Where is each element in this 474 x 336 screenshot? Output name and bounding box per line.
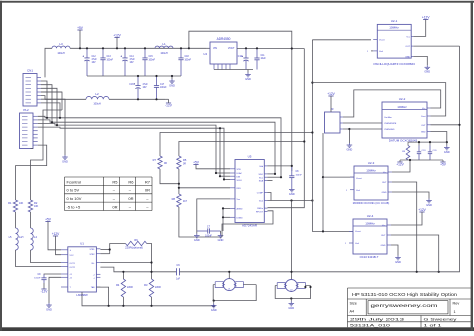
svg-text:ADR4550: ADR4550	[217, 37, 231, 41]
connector CN1	[23, 74, 37, 107]
svg-text:OUT: OUT	[382, 182, 387, 184]
svg-text:16V: 16V	[130, 62, 135, 64]
svg-text:+12V: +12V	[396, 162, 404, 166]
svg-text:10MHz: 10MHz	[389, 26, 399, 30]
capacitor C11	[256, 48, 258, 58]
svg-text:OUT: OUT	[381, 235, 386, 237]
svg-text:53131A_010: 53131A_010	[350, 324, 390, 328]
svg-text:47uF: 47uF	[130, 59, 136, 61]
wire vcont vertical	[312, 40, 353, 232]
svg-text:MORION OCXO91 (CC CO-08): MORION OCXO91 (CC CO-08)	[353, 201, 390, 205]
wire	[213, 284, 215, 286]
border frame	[0, 1, 474, 3]
ground	[348, 143, 350, 145]
svg-text:GND: GND	[245, 77, 251, 81]
svg-text:LDAC: LDAC	[237, 172, 243, 175]
svg-text:GND: GND	[395, 260, 401, 264]
wire	[15, 212, 17, 228]
svg-text:GND: GND	[218, 238, 224, 242]
svg-text:+12V: +12V	[52, 232, 60, 236]
svg-text:100nF: 100nF	[185, 60, 192, 62]
svg-text:STB1: STB1	[89, 249, 95, 251]
svg-text:HP 53131-010 OCXO High Stabili: HP 53131-010 OCXO High Stability Option	[352, 292, 457, 298]
svg-text:0R: 0R	[164, 163, 167, 165]
resistor R3	[149, 279, 153, 297]
svg-text:GND: GND	[421, 132, 426, 134]
wire	[41, 96, 86, 100]
wire U1 tab	[96, 287, 108, 306]
transistor Q2	[285, 280, 297, 292]
svg-text:Size: Size	[350, 302, 357, 306]
svg-text:4K7: 4K7	[183, 201, 188, 203]
wire aGND dGND	[223, 208, 230, 231]
op-amp U4 ADR4550	[210, 42, 237, 64]
svg-text:Vout: Vout	[259, 200, 264, 203]
svg-text:10MHz: 10MHz	[397, 105, 407, 109]
resistor R8	[177, 194, 181, 207]
svg-text:R5: R5	[183, 158, 187, 162]
resistor R6 optional	[100, 249, 109, 251]
svg-text:Fcontrol: Fcontrol	[67, 179, 82, 184]
wire osc3 vcc	[392, 160, 410, 172]
svg-text:220R: 220R	[155, 286, 161, 289]
power -12V	[43, 283, 45, 289]
svg-text:AGND: AGND	[237, 208, 244, 211]
svg-text:1uF: 1uF	[176, 278, 181, 281]
wire U5 right side Vdd	[268, 165, 292, 167]
inductor L5	[16, 228, 19, 250]
svg-text:GND: GND	[62, 159, 68, 163]
resistor R2	[28, 200, 32, 212]
svg-text:R5: R5	[112, 179, 118, 184]
svg-text:C12: C12	[92, 56, 97, 58]
ground	[391, 245, 398, 256]
svg-text:OUT1: OUT1	[70, 263, 76, 265]
svg-text:GND: GND	[444, 150, 450, 154]
svg-text:OUT2: OUT2	[70, 267, 76, 269]
svg-text:GND: GND	[211, 308, 217, 312]
wire DAC out to buffer	[291, 201, 293, 280]
svg-text:GND: GND	[347, 147, 353, 151]
wire Fcontrol feed A	[160, 133, 312, 157]
svg-text:100uH: 100uH	[93, 102, 101, 105]
svg-text:0R: 0R	[145, 188, 150, 193]
svg-text:+5V: +5V	[440, 162, 447, 166]
ground	[392, 192, 429, 199]
svg-text:U2-1: U2-1	[391, 19, 398, 23]
wire vref stub	[371, 50, 373, 52]
ground	[196, 231, 198, 234]
wire J3 to U2-2 Vcc	[343, 90, 441, 117]
svg-text:+12V: +12V	[418, 208, 426, 212]
svg-text:U1: U1	[80, 242, 84, 246]
svg-text:VIN: VIN	[213, 47, 217, 50]
svg-text:GND: GND	[288, 306, 294, 310]
svg-text:GND: GND	[289, 192, 295, 196]
wire ground rail	[87, 75, 181, 77]
svg-text:1: 1	[454, 310, 456, 314]
svg-text:C18: C18	[185, 56, 190, 58]
svg-text:RFS: RFS	[237, 188, 242, 190]
power -12V	[166, 102, 171, 104]
svg-text:Vref: Vref	[379, 50, 383, 53]
svg-text:100nF: 100nF	[160, 87, 167, 89]
svg-text:16V: 16V	[143, 87, 148, 89]
svg-text:Vcont: Vcont	[379, 39, 385, 42]
svg-text:10uF: 10uF	[261, 58, 267, 60]
inductor L3	[52, 46, 70, 48]
wire	[343, 122, 382, 124]
svg-text:Vref: Vref	[356, 189, 360, 192]
ground	[291, 188, 293, 190]
svg-text:STB: STB	[237, 169, 242, 171]
svg-text:GND: GND	[405, 57, 410, 59]
svg-text:U5: U5	[248, 155, 252, 159]
inductor L2	[86, 96, 109, 99]
capacitor C6	[176, 268, 178, 275]
svg-text:DIN: DIN	[237, 177, 241, 179]
svg-text:1 of 1: 1 of 1	[424, 324, 442, 328]
svg-text:R7: R7	[153, 158, 157, 162]
wire osc3 out	[392, 182, 417, 272]
wire Vdd top feed	[189, 31, 292, 171]
svg-text:100nF: 100nF	[149, 60, 156, 62]
connector J3	[325, 112, 341, 133]
svg-text:10MHz: 10MHz	[366, 169, 376, 173]
svg-text:0 to 5V: 0 to 5V	[67, 188, 80, 193]
svg-text:100uH: 100uH	[57, 52, 65, 55]
wire U1 bottom	[82, 292, 214, 306]
wire	[147, 244, 152, 280]
capacitor C16	[137, 76, 139, 86]
power +12V trio	[397, 161, 402, 163]
svg-text:U2-4: U2-4	[367, 214, 374, 218]
svg-text:L3: L3	[59, 42, 63, 46]
svg-text:OUT: OUT	[421, 125, 426, 127]
ground	[247, 70, 249, 73]
wire Vout	[268, 200, 313, 202]
capacitor C18	[180, 48, 182, 58]
svg-text:GND: GND	[46, 307, 52, 311]
wire	[179, 207, 222, 237]
svg-text:Vcont: Vcont	[356, 177, 362, 180]
svg-text:U2-2: U2-2	[399, 97, 406, 101]
wire RFS	[179, 187, 230, 189]
svg-text:-5 to +5: -5 to +5	[67, 204, 81, 209]
svg-text:100nF: 100nF	[205, 235, 212, 238]
svg-text:OC10 3431B-T: OC10 3431B-T	[360, 255, 379, 259]
svg-text:L2: L2	[95, 92, 99, 96]
op-amp U1 LM358W	[68, 247, 97, 292]
svg-text:PL2: PL2	[23, 108, 29, 112]
wire Fcontrol feed B	[179, 142, 304, 157]
wire CN1 pin wires	[41, 81, 47, 118]
svg-text:OVENGND: OVENGND	[384, 129, 395, 131]
svg-text:GND: GND	[194, 238, 200, 242]
svg-text:Vss: Vss	[237, 199, 240, 201]
ground	[213, 300, 215, 302]
svg-text:C13: C13	[107, 56, 112, 58]
node +5V rail junctions	[79, 47, 81, 49]
svg-text:GND: GND	[426, 203, 432, 207]
svg-text:R4: R4	[116, 283, 120, 287]
svg-text:R7: R7	[145, 179, 151, 184]
svg-text:SDO: SDO	[258, 174, 263, 176]
svg-text:100nF: 100nF	[107, 60, 114, 62]
svg-text:REFin: REFin	[257, 208, 264, 210]
transistor Q1	[223, 279, 235, 291]
svg-text:Vcont: Vcont	[355, 230, 361, 233]
ground	[220, 231, 222, 234]
ground	[413, 56, 427, 65]
svg-text:29th July 2013: 29th July 2013	[350, 318, 404, 322]
resistor R7	[158, 156, 162, 169]
svg-text:OSCILLOQUARTZ OCXO8663: OSCILLOQUARTZ OCXO8663	[373, 62, 415, 66]
svg-text:C16: C16	[129, 84, 134, 86]
svg-text:1uH: 1uH	[19, 236, 24, 239]
svg-text:+12V: +12V	[327, 92, 335, 96]
wire +5V rail	[70, 47, 206, 49]
svg-text:Rev: Rev	[453, 302, 460, 306]
svg-text:C10: C10	[238, 56, 243, 58]
resistor R5	[177, 156, 181, 169]
capacitor C12	[86, 48, 88, 58]
ground	[431, 132, 447, 146]
svg-text:10MHz: 10MHz	[365, 222, 375, 226]
svg-text:GND: GND	[381, 245, 386, 247]
svg-text:TAB: TAB	[91, 286, 95, 289]
svg-text:CN1: CN1	[27, 69, 33, 73]
capacitor C19	[418, 146, 420, 152]
inductor L1	[155, 46, 173, 48]
svg-text:OUT: OUT	[405, 46, 410, 48]
svg-text:Vcc: Vcc	[422, 108, 425, 110]
svg-text:100uH: 100uH	[160, 52, 168, 55]
wire	[408, 159, 430, 161]
svg-text:0R: 0R	[112, 204, 117, 209]
svg-text:+5V: +5V	[193, 160, 200, 164]
svg-text:L1: L1	[162, 42, 166, 46]
wire PL2 lower pins	[16, 145, 47, 200]
wire	[160, 169, 179, 184]
svg-text:100nF: 100nF	[34, 278, 41, 280]
svg-text:-12V: -12V	[165, 103, 173, 107]
resistor R9	[406, 146, 410, 161]
svg-text:+12V: +12V	[422, 15, 430, 19]
svg-text:Fout: Fout	[421, 115, 426, 118]
svg-text:16V: 16V	[92, 62, 97, 64]
svg-text:C15: C15	[149, 56, 154, 58]
wire osc4 out	[391, 235, 439, 272]
capacitor C10	[245, 48, 247, 58]
svg-text:GND: GND	[382, 192, 387, 194]
capacitor C14	[124, 48, 126, 58]
wire REFin	[268, 49, 305, 208]
svg-text:GND: GND	[169, 83, 175, 87]
connector PL2	[20, 113, 34, 149]
svg-text:10K: 10K	[34, 205, 39, 208]
wire U4 ground rail	[214, 69, 253, 71]
wire comp to vout	[268, 193, 272, 201]
svg-text:R1: R1	[8, 201, 12, 205]
svg-text:SCLK: SCLK	[237, 180, 243, 182]
capacitor C7	[197, 230, 208, 232]
svg-text:47uF: 47uF	[92, 59, 98, 61]
svg-text:G Sweeney: G Sweeney	[424, 318, 457, 322]
svg-text:C17: C17	[160, 84, 165, 86]
wire output line	[100, 262, 151, 264]
wire	[219, 128, 221, 176]
svg-text:220R: 220R	[127, 286, 133, 289]
ground	[49, 277, 61, 303]
svg-text:SDA: SDA	[259, 180, 264, 183]
svg-text:0R: 0R	[128, 196, 133, 201]
svg-text:U2-3: U2-3	[368, 161, 375, 165]
wire main analog line	[180, 46, 460, 272]
svg-text:COMP: COMP	[257, 193, 264, 195]
svg-text:C14: C14	[130, 56, 135, 58]
resistor R4	[122, 272, 124, 279]
svg-text:10K: 10K	[19, 202, 24, 205]
capacitor C8	[291, 166, 293, 176]
wire	[16, 250, 62, 267]
svg-text:gerrysweeney.com: gerrysweeney.com	[371, 303, 438, 308]
svg-text:A4: A4	[350, 310, 355, 314]
svg-text:OVENSTATE: OVENSTATE	[384, 122, 397, 125]
capacitor C9	[44, 273, 61, 276]
svg-text:+5V: +5V	[45, 217, 52, 221]
wire jumper to oscillators vcont	[322, 133, 324, 231]
svg-text:220R(optional): 220R(optional)	[125, 245, 143, 249]
svg-text:-12V: -12V	[41, 289, 49, 293]
resistor R1	[13, 200, 17, 212]
capacitor C17	[156, 76, 158, 86]
wire	[275, 285, 277, 287]
svg-text:C6: C6	[176, 263, 180, 267]
svg-text:GND: GND	[424, 70, 430, 74]
svg-text:47uF: 47uF	[143, 84, 149, 86]
Fcontrol option table	[65, 176, 153, 178]
svg-text:VOUT: VOUT	[228, 47, 235, 50]
svg-text:R8: R8	[172, 197, 176, 201]
wire REFout	[222, 211, 273, 237]
capacitor C13	[102, 48, 104, 58]
svg-text:R6: R6	[134, 238, 138, 242]
wire out	[413, 45, 459, 47]
svg-text:OscMon: OscMon	[384, 117, 393, 119]
ground	[171, 76, 173, 79]
op-amp U2-2 OCXO	[382, 102, 427, 138]
svg-text:100nF: 100nF	[296, 175, 303, 177]
op-amp U2-1 OCXO	[377, 24, 411, 58]
power +5V trio	[440, 161, 445, 163]
wire	[45, 48, 52, 77]
svg-text:+5V: +5V	[77, 26, 84, 30]
svg-text:DGND: DGND	[237, 217, 244, 219]
op-amp U2-3 OCXO	[354, 166, 388, 200]
svg-text:0R: 0R	[183, 164, 186, 166]
op-amp U2-4 OCXO	[353, 219, 387, 254]
svg-text:RFOUT: RFOUT	[256, 212, 264, 214]
wire data bus	[38, 116, 281, 177]
svg-text:R3: R3	[144, 283, 148, 287]
capacitor C20	[429, 146, 431, 152]
wire Vss	[197, 199, 230, 231]
capacitor C15	[144, 48, 146, 58]
inductor L4	[31, 228, 34, 250]
ground	[64, 155, 66, 157]
svg-text:R6: R6	[128, 179, 134, 184]
svg-text:+12V: +12V	[113, 33, 121, 37]
svg-text:0 to 10V: 0 to 10V	[67, 196, 82, 201]
wire SDO/SCL/SDA	[268, 173, 276, 175]
title block	[348, 287, 471, 289]
op-amp U5 AD7243AR DAC	[235, 160, 264, 223]
wire U5 left pins	[216, 172, 230, 174]
svg-text:Vref: Vref	[355, 242, 359, 245]
svg-text:VCC: VCC	[70, 255, 75, 257]
wire U2-2 Fcont feed	[312, 83, 445, 116]
svg-text:STB2: STB2	[89, 254, 95, 256]
wire U4 output	[237, 48, 304, 50]
wire osc2 out	[431, 124, 460, 126]
ground	[290, 297, 292, 299]
svg-text:U4: U4	[203, 52, 207, 56]
wire	[408, 141, 447, 143]
